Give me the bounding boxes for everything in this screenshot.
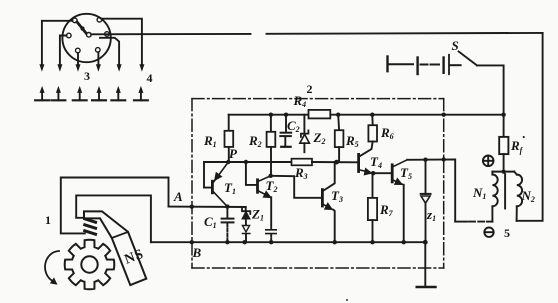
svg-text:N1: N1	[472, 185, 486, 201]
svg-text:N2: N2	[521, 188, 535, 204]
svg-text:R7: R7	[379, 202, 394, 218]
svg-text:R1: R1	[203, 133, 217, 149]
svg-text:R2: R2	[248, 133, 262, 149]
svg-text:T5: T5	[400, 165, 412, 181]
svg-text:2: 2	[307, 82, 313, 96]
svg-text:R5: R5	[345, 133, 359, 149]
svg-text:3: 3	[84, 69, 90, 83]
svg-text:1: 1	[45, 213, 51, 227]
svg-text:S: S	[452, 38, 459, 53]
svg-text:5: 5	[504, 226, 510, 240]
svg-text:A: A	[173, 189, 183, 204]
svg-text:Z1: Z1	[251, 207, 264, 223]
svg-text:Z2: Z2	[313, 130, 326, 146]
svg-text:R6: R6	[380, 125, 394, 141]
svg-text:z1: z1	[426, 207, 436, 223]
svg-text:4: 4	[147, 71, 153, 85]
svg-text:R4: R4	[293, 93, 307, 109]
svg-text:C1: C1	[204, 214, 217, 230]
svg-text:T4: T4	[370, 154, 382, 170]
svg-text:P: P	[229, 146, 238, 161]
svg-text:B: B	[192, 245, 202, 260]
svg-text:T3: T3	[331, 188, 343, 204]
svg-text:·: ·	[522, 129, 525, 144]
svg-text:T2: T2	[266, 178, 278, 194]
svg-text:C2: C2	[287, 118, 300, 134]
svg-text:T1: T1	[224, 180, 236, 196]
svg-text:R3: R3	[294, 165, 308, 181]
